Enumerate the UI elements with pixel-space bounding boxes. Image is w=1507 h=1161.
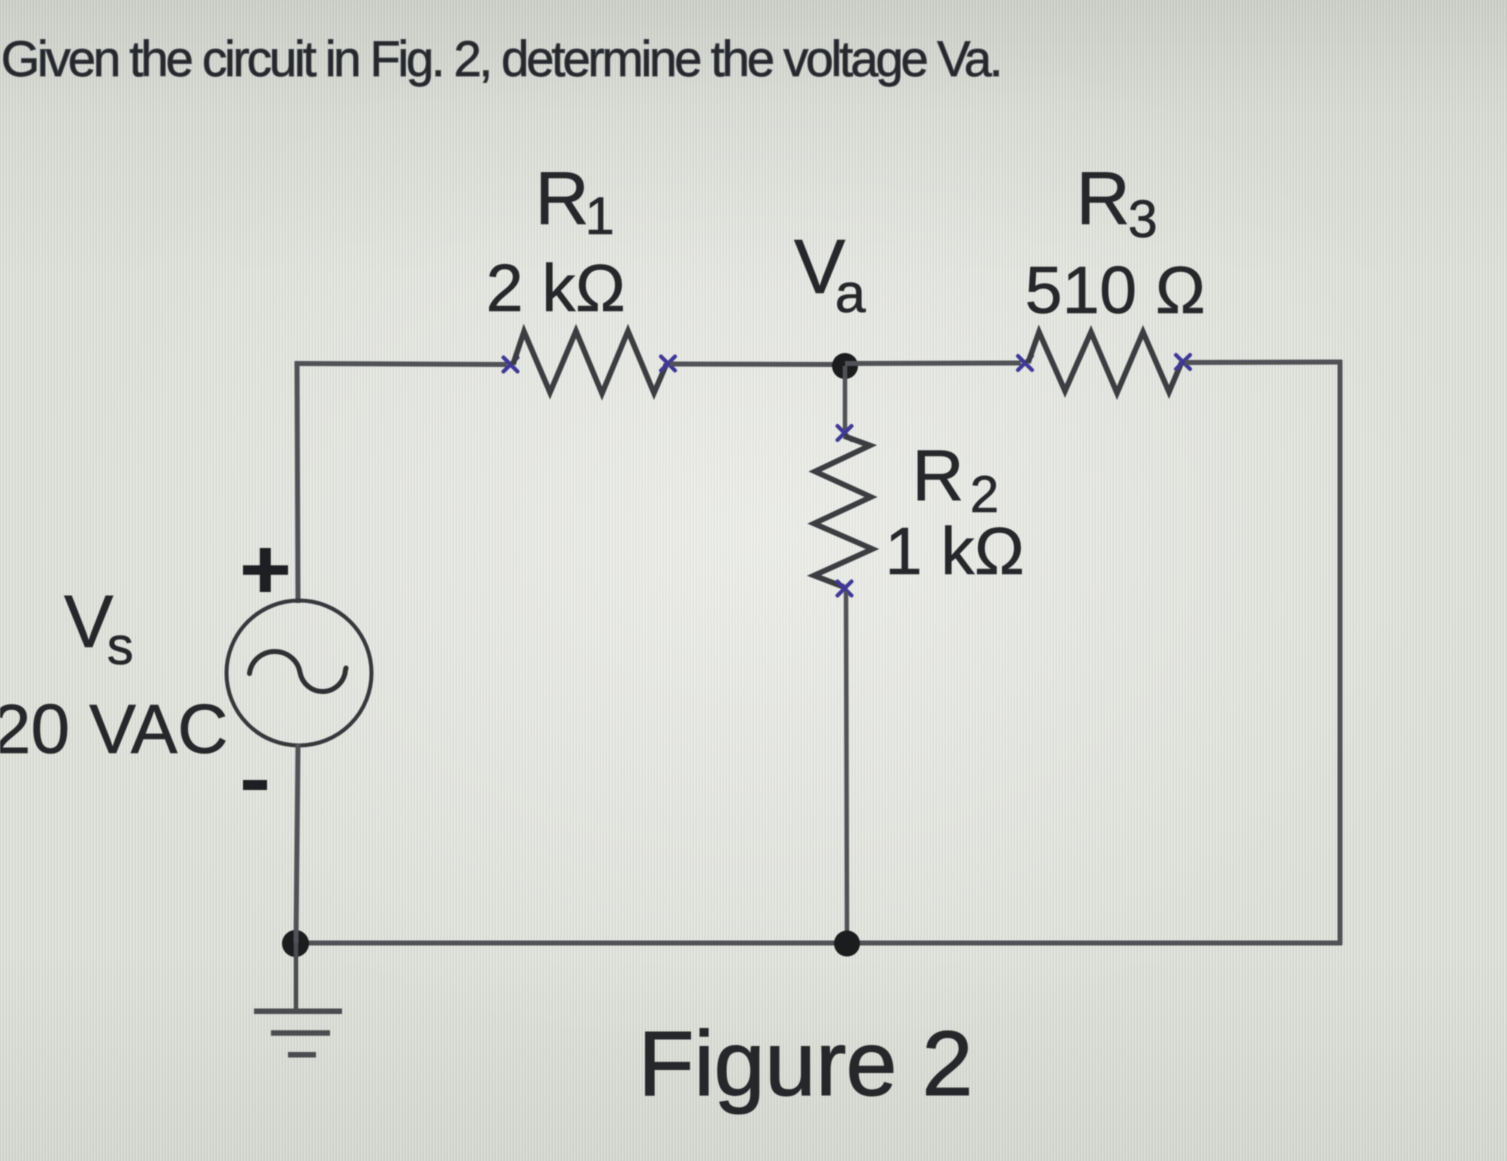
- label R3: [1076, 156, 1157, 249]
- R3 pin 1 marker: [1018, 356, 1032, 370]
- node bottom-center junction dot: [834, 931, 860, 957]
- resistor R1: [513, 331, 667, 394]
- svg-text:s: s: [107, 617, 134, 676]
- wire source bottom: [296, 744, 298, 943]
- R1 pin 1 marker: [504, 358, 518, 372]
- wire R1 to node Va: [670, 362, 845, 368]
- ground: [254, 943, 342, 1055]
- node bottom-left junction dot: [282, 930, 309, 957]
- svg-text:R: R: [912, 436, 964, 516]
- svg-text:Figure 2: Figure 2: [638, 1013, 973, 1115]
- label Va: [794, 224, 866, 324]
- svg-text:a: a: [835, 262, 866, 324]
- label R2: [912, 436, 999, 524]
- wire bottom: [293, 941, 1342, 946]
- R1 pin 2 marker: [661, 357, 675, 371]
- wire R2 to bottom node: [846, 591, 847, 943]
- label R1: [535, 156, 614, 246]
- svg-text:2 kΩ: 2 kΩ: [486, 251, 625, 326]
- svg-text:20 VAC: 20 VAC: [0, 690, 228, 768]
- polarity plus: [243, 548, 288, 592]
- polarity minus: [243, 780, 267, 790]
- svg-text:1 kΩ: 1 kΩ: [885, 514, 1024, 589]
- wire right vertical: [1338, 360, 1343, 945]
- wire top-left vertical: [297, 362, 298, 604]
- source sine symbol: [250, 651, 347, 691]
- resistor R3: [1028, 332, 1182, 393]
- wire top segment source to R1: [295, 364, 507, 365]
- source Vs AC circle: [227, 601, 372, 746]
- wire node Va to R2: [843, 366, 848, 430]
- R2 pin 2 marker: [838, 582, 852, 596]
- wire node Va to R3: [845, 361, 1021, 367]
- resistor R2: [814, 436, 873, 587]
- svg-text:Given the circuit in Fig. 2, d: Given the circuit in Fig. 2, determine t…: [1, 31, 1000, 87]
- R3 pin 2 marker: [1176, 355, 1190, 369]
- svg-text:R: R: [1076, 156, 1130, 240]
- R2 pin 1 marker: [838, 426, 852, 440]
- svg-text:R: R: [535, 156, 589, 240]
- wire R3 to top-right corner: [1185, 360, 1342, 366]
- svg-text:510 Ω: 510 Ω: [1025, 253, 1206, 328]
- label Vs: [64, 580, 134, 676]
- node Va junction dot: [832, 353, 858, 379]
- svg-text:1: 1: [585, 187, 614, 246]
- svg-text:3: 3: [1128, 190, 1157, 249]
